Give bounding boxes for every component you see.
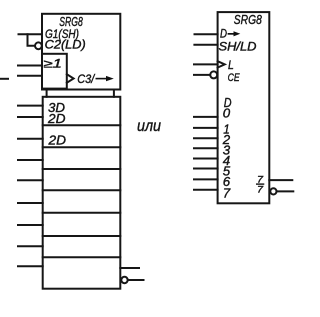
wire input D5 [194,168,218,170]
shift register U1 main array box [43,97,121,289]
svg-text:C2(LD): C2(LD) [45,40,86,52]
shift register U2 box [218,12,270,203]
wire input D2 [194,137,218,139]
svg-text:L: L [228,60,234,72]
divider row 3/4 [43,168,121,170]
wire input 2D row2 [18,138,43,140]
wire input SH/LD [194,44,217,46]
stray mark left margin [0,78,8,80]
svg-text:SH/LD: SH/LD [219,42,257,54]
shift register U1 control block [42,14,120,90]
neck connector right between control block and register array [113,90,115,97]
wire input G1(SH) [19,33,43,35]
wire input row7 [18,245,43,247]
svg-text:≥1: ≥1 [44,58,63,70]
OR element (&ge;1) inside U1 control block [42,54,67,89]
inversion bubble on C2(LD) input [35,42,42,49]
divider row 1/2 [43,124,121,126]
wire input row8 [18,265,43,267]
wire output 7n [277,190,294,192]
divider row 5/6 [43,212,121,214]
wire output 7 [269,179,292,181]
inversion bubble on output 7n [270,188,276,194]
wire input D7 [194,189,218,191]
divider row 7/8 [43,256,121,258]
wire OR input 2 [18,75,42,77]
divider row 6/7 [43,235,121,237]
wire branch to C2 inverter [28,34,36,46]
svg-text:SRG8: SRG8 [234,13,262,27]
wire D arrow shaft U2 [228,33,236,35]
wire input D1 [194,127,218,129]
wire input D0 [194,116,218,118]
svg-text:SRG8: SRG8 [59,15,83,29]
wire input D3 [194,147,218,149]
wire input D4 [194,158,218,160]
wire output Q7 [120,267,139,269]
inversion bubble on CE input [210,71,217,78]
wire input CE [194,74,210,76]
divider row 2/3 [43,146,121,148]
wire input L [194,63,218,65]
wire input row6 [18,224,43,226]
wire input 2D row1 [18,116,43,118]
arrowhead C3 shift direction [106,76,114,81]
wire input row5 [18,202,43,204]
arrowhead D shift direction U2 [234,31,241,36]
neck connector left between control block and register array [46,90,48,97]
inversion bubble on output Q7n [121,277,127,283]
svg-text:0: 0 [223,106,231,121]
wire input D [195,33,218,35]
wire input row3 [18,159,43,161]
dynamic input triangle C3 on OR box [67,74,74,83]
fraction bar between 7 and 7 outputs [256,183,264,184]
wire input D6 [194,178,218,180]
dynamic input triangle L [218,61,225,67]
wire input row4 [18,179,43,181]
svg-text:2D: 2D [47,134,66,148]
wire input 3D row1 [18,105,43,107]
svg-text:D: D [220,27,227,41]
wire OR input 1 [18,65,42,67]
svg-text:CE: CE [228,72,241,84]
svg-text:2D: 2D [47,112,66,126]
divider row 4/5 [43,189,121,191]
wire C3 arrow shaft [96,78,108,80]
wire output Q7n [128,279,144,281]
svg-text:7: 7 [223,185,231,200]
svg-text:C3/: C3/ [77,74,96,86]
svg-text:или: или [137,118,161,135]
